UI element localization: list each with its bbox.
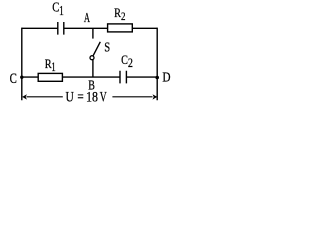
svg-text:=: = — [77, 88, 83, 105]
svg-text:1: 1 — [51, 62, 55, 75]
svg-text:U: U — [66, 88, 75, 105]
svg-text:A: A — [84, 11, 91, 25]
svg-text:2: 2 — [128, 57, 133, 70]
svg-text:18: 18 — [86, 88, 98, 104]
svg-text:D: D — [162, 70, 170, 85]
svg-text:V: V — [100, 89, 107, 106]
svg-text:1: 1 — [59, 4, 64, 18]
svg-text:S: S — [104, 39, 110, 55]
svg-text:C: C — [52, 0, 59, 15]
svg-text:C: C — [10, 71, 17, 87]
svg-text:2: 2 — [121, 11, 125, 23]
